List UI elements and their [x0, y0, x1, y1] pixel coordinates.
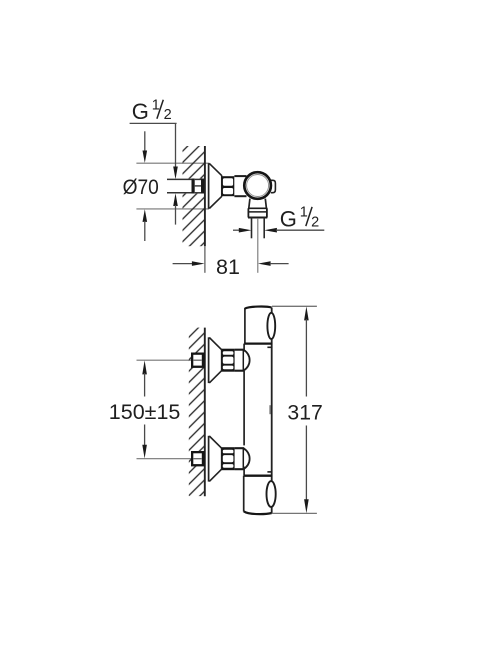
- thermostat bar right edge: [271, 308, 273, 514]
- wall face line (front view): [204, 328, 206, 497]
- svg-text:G: G: [280, 206, 297, 231]
- upper union socket in wall: [191, 353, 205, 368]
- leader line of G1/2 top label: [130, 123, 177, 168]
- valve body circle (side view): [244, 172, 271, 199]
- dimension 150±15 upper arrow: [142, 360, 147, 396]
- escutcheon flange face (side view): [208, 163, 210, 209]
- lower union nut and ring: [222, 447, 245, 470]
- svg-text:2: 2: [311, 215, 319, 231]
- upper union nut and ring: [222, 349, 245, 372]
- thermostat bar left edge segments: [243, 344, 245, 476]
- label G1/2 (hose thread): [280, 204, 319, 231]
- hose G1/2 dimension right arrow: [264, 228, 324, 233]
- union socket in wall (side view): [192, 179, 205, 194]
- lower escutcheon cone: [209, 436, 221, 481]
- svg-text:81: 81: [216, 255, 240, 279]
- svg-text:150±15: 150±15: [109, 400, 181, 424]
- extension line 317 top: [272, 305, 317, 307]
- inlet pipe in wall (bottom line): [167, 192, 192, 194]
- label G1/2 (top, inlet thread): [132, 97, 172, 124]
- upper escutcheon cone: [209, 338, 221, 383]
- bottom knob face ellipse: [267, 481, 276, 507]
- union nut (side view, faceted): [222, 176, 235, 196]
- svg-text:1: 1: [300, 204, 308, 220]
- extension line Ø70 top: [136, 162, 209, 164]
- hose centerline (extension for 81 dim): [257, 218, 259, 273]
- wall hatching upper (side view, above inlet pipe): [183, 146, 205, 179]
- svg-text:317: 317: [287, 400, 322, 424]
- outlet neck below valve body: [249, 199, 267, 209]
- tick mark under top knob: [267, 346, 272, 348]
- svg-text:2: 2: [164, 107, 172, 123]
- inlet pipe in wall (top line): [167, 178, 192, 180]
- lower union socket in wall: [191, 451, 205, 466]
- dimension 81 right arrow: [258, 261, 289, 266]
- arrow down to pipe top (G1/2): [173, 167, 178, 180]
- upper union dome cap: [243, 350, 249, 371]
- svg-text:1: 1: [152, 97, 160, 113]
- svg-text:G: G: [132, 99, 149, 124]
- svg-text:Ø70: Ø70: [123, 175, 159, 199]
- extension line Ø70 bottom: [136, 208, 209, 210]
- tick mark above bottom knob: [267, 471, 271, 473]
- extension line 317 bottom: [272, 512, 317, 514]
- lower union dome cap: [243, 448, 249, 469]
- top knob face ellipse: [267, 313, 275, 339]
- handle knob edge (right of valve body): [271, 180, 276, 192]
- dimension 81 (wall to hose centre) left arrow: [173, 261, 205, 266]
- dimension 317 upper arrow: [304, 306, 309, 396]
- arrow up to Ø70 bottom extension: [143, 209, 148, 241]
- wall hatching lower (side view, below inlet pipe): [183, 194, 205, 247]
- extension line 150 lower (inlet centre): [137, 458, 205, 460]
- upper escutcheon flange: [208, 337, 210, 383]
- arrow up to pipe bottom (G1/2): [173, 193, 178, 224]
- top control knob (shower head side): [244, 307, 272, 344]
- arrow down to Ø70 top extension: [143, 131, 148, 163]
- dimension 150±15 lower arrow: [142, 425, 147, 459]
- wall hatching (front view): [189, 328, 205, 497]
- lower escutcheon flange: [208, 436, 210, 482]
- shower hose stub: [252, 218, 265, 239]
- escutcheon cone (side view): [209, 163, 221, 208]
- extension line 150 upper (inlet centre): [137, 359, 205, 361]
- outlet nut (hose union): [248, 208, 267, 217]
- scale dash on right edge: [269, 405, 271, 414]
- valve inlet connector (side view): [234, 176, 246, 196]
- dimension 317 lower arrow: [304, 426, 309, 514]
- hose G1/2 dimension left arrow: [233, 228, 252, 233]
- wall extension line for 81 dim: [204, 246, 206, 272]
- wall face line (side view): [204, 146, 206, 246]
- bottom control knob (temperature): [244, 476, 272, 514]
